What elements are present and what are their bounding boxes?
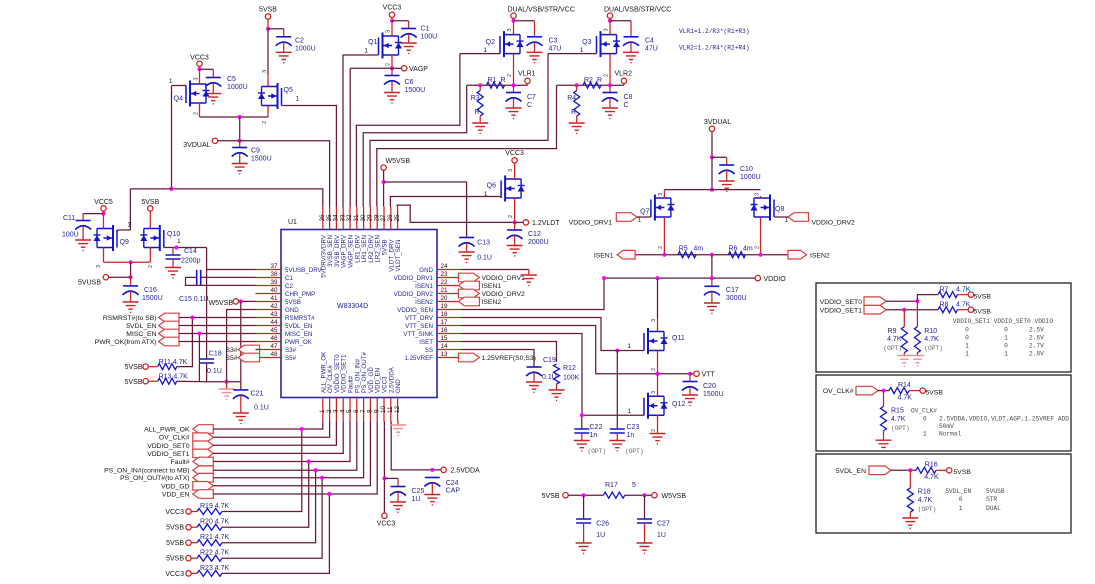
svg-text:Q10: Q10 — [167, 231, 180, 238]
svg-text:Q12: Q12 — [672, 401, 685, 408]
svg-text:R: R — [501, 77, 506, 84]
svg-text:3: 3 — [507, 28, 513, 31]
svg-text:1500U: 1500U — [142, 295, 163, 302]
svg-text:C15 0.1U: C15 0.1U — [179, 296, 209, 303]
svg-text:VLR2: VLR2 — [615, 71, 633, 78]
svg-text:1: 1 — [364, 48, 368, 55]
svg-text:1: 1 — [627, 408, 631, 415]
svg-text:4.7K: 4.7K — [898, 395, 913, 402]
svg-text:1: 1 — [169, 78, 173, 85]
svg-text:19: 19 — [441, 303, 449, 310]
svg-text:R18: R18 — [918, 489, 931, 496]
svg-text:2: 2 — [262, 121, 268, 124]
svg-text:C1: C1 — [421, 26, 430, 33]
svg-text:3: 3 — [651, 319, 657, 322]
svg-text:1000U: 1000U — [740, 174, 761, 181]
svg-text:4m: 4m — [693, 245, 703, 252]
svg-text:C: C — [527, 102, 532, 109]
svg-text:W5VSB: W5VSB — [386, 158, 411, 165]
svg-text:0.1U: 0.1U — [477, 255, 492, 262]
svg-text:0: 0 — [965, 335, 969, 342]
svg-text:VDDIO_DRV1: VDDIO_DRV1 — [394, 275, 434, 282]
svg-text:43: 43 — [270, 311, 278, 318]
svg-text:5VSB: 5VSB — [125, 379, 143, 386]
svg-text:2: 2 — [651, 368, 657, 371]
svg-text:1: 1 — [580, 47, 584, 54]
svg-text:4.7K: 4.7K — [956, 302, 971, 309]
svg-text:21: 21 — [441, 287, 449, 294]
svg-text:OV_CLK#: OV_CLK# — [823, 388, 854, 395]
svg-text:MISC_EN: MISC_EN — [285, 331, 313, 338]
svg-text:R: R — [597, 77, 602, 84]
svg-text:4.7K: 4.7K — [924, 474, 939, 481]
svg-text:C17: C17 — [726, 287, 739, 294]
svg-text:ISET: ISET — [419, 339, 433, 346]
svg-text:2: 2 — [507, 74, 513, 77]
svg-text:C4: C4 — [645, 38, 654, 45]
svg-text:C21: C21 — [251, 391, 264, 398]
svg-text:C2: C2 — [295, 38, 304, 45]
svg-text:3: 3 — [651, 391, 657, 394]
svg-text:0.1U: 0.1U — [207, 368, 222, 375]
svg-text:Q1: Q1 — [368, 39, 377, 46]
svg-text:PWR_OK(from ATX): PWR_OK(from ATX) — [95, 339, 157, 346]
svg-text:R7: R7 — [940, 287, 949, 294]
svg-text:R20 4.7K: R20 4.7K — [200, 519, 230, 526]
svg-text:20: 20 — [441, 295, 449, 302]
svg-text:5VUSB: 5VUSB — [986, 488, 1005, 495]
svg-text:1: 1 — [959, 505, 963, 512]
svg-text:C9: C9 — [251, 148, 260, 155]
svg-text:23: 23 — [441, 271, 449, 278]
svg-text:C: C — [624, 102, 629, 109]
svg-text:46: 46 — [270, 335, 278, 342]
svg-text:W5VSB: W5VSB — [208, 300, 233, 307]
svg-text:VDDIO_SET1: VDDIO_SET1 — [820, 308, 863, 315]
svg-text:2200p: 2200p — [181, 258, 201, 265]
svg-text:Fault#: Fault# — [171, 459, 190, 466]
svg-text:5: 5 — [632, 482, 636, 489]
svg-text:VTT: VTT — [702, 372, 716, 379]
svg-text:Q8: Q8 — [775, 206, 784, 213]
svg-text:R11 4.7K: R11 4.7K — [159, 359, 188, 366]
svg-text:5VSB: 5VSB — [166, 525, 184, 532]
svg-text:Q5: Q5 — [284, 87, 293, 94]
svg-text:CHR_PMP: CHR_PMP — [285, 291, 315, 298]
svg-text:MISC_EN: MISC_EN — [126, 331, 156, 338]
svg-text:1U: 1U — [596, 532, 605, 539]
svg-text:3: 3 — [604, 28, 610, 31]
svg-text:5VDL_EN: 5VDL_EN — [285, 323, 313, 330]
svg-text:4.7K: 4.7K — [924, 336, 939, 343]
svg-text:3000U: 3000U — [726, 295, 747, 302]
svg-text:VLR2=1.2/R4*(R2+R4): VLR2=1.2/R4*(R2+R4) — [679, 45, 750, 52]
svg-text:W83304D: W83304D — [337, 303, 368, 310]
svg-text:1: 1 — [177, 238, 181, 245]
svg-text:22: 22 — [441, 279, 449, 286]
svg-text:R8: R8 — [940, 302, 949, 309]
svg-text:3: 3 — [508, 169, 514, 172]
svg-text:0: 0 — [1004, 343, 1008, 350]
svg-text:VAGP: VAGP — [409, 66, 428, 73]
svg-text:VDDIO_SET1 VDDIO_SET0 VDDIO: VDDIO_SET1 VDDIO_SET0 VDDIO — [953, 318, 1054, 325]
svg-text:VCC5: VCC5 — [94, 199, 113, 206]
svg-text:1n: 1n — [590, 432, 598, 439]
svg-text:2.7V: 2.7V — [1029, 343, 1044, 350]
svg-text:4.7K: 4.7K — [891, 416, 906, 423]
svg-text:VDDIO_SET0: VDDIO_SET0 — [147, 443, 190, 450]
svg-text:S5#: S5# — [285, 355, 297, 362]
svg-text:ISEN1: ISEN1 — [594, 253, 614, 260]
svg-text:40: 40 — [270, 287, 278, 294]
svg-text:1.25VREF: 1.25VREF — [404, 355, 433, 362]
svg-text:1.2VLDT: 1.2VLDT — [532, 220, 560, 227]
svg-text:3VDUAL: 3VDUAL — [704, 119, 731, 126]
svg-text:VDDIO_DRV2: VDDIO_DRV2 — [482, 291, 526, 298]
svg-text:3: 3 — [194, 77, 200, 80]
svg-text:R3: R3 — [471, 95, 480, 102]
svg-text:2: 2 — [651, 429, 657, 432]
svg-text:VCC3: VCC3 — [165, 571, 184, 578]
svg-text:0: 0 — [1004, 327, 1008, 334]
svg-text:1U: 1U — [657, 532, 666, 539]
svg-text:C22: C22 — [590, 424, 603, 431]
svg-text:5VSB: 5VSB — [974, 294, 992, 301]
svg-text:4.7K: 4.7K — [956, 287, 971, 294]
svg-text:RSMRST#(to SB): RSMRST#(to SB) — [103, 315, 157, 322]
svg-text:(OPT): (OPT) — [625, 448, 644, 455]
svg-text:44: 44 — [270, 319, 278, 326]
svg-text:OV_CLK#: OV_CLK# — [159, 435, 190, 442]
svg-text:5VUSB: 5VUSB — [78, 280, 101, 287]
svg-text:39: 39 — [270, 279, 278, 286]
svg-text:41: 41 — [270, 295, 278, 302]
svg-text:16: 16 — [441, 327, 449, 334]
svg-text:47: 47 — [270, 343, 278, 350]
svg-text:Q4: Q4 — [174, 96, 183, 103]
svg-text:24: 24 — [441, 263, 449, 270]
svg-text:R22 4.7K: R22 4.7K — [200, 550, 230, 557]
svg-text:2.5VDDA: 2.5VDDA — [451, 467, 481, 474]
svg-text:5VSB: 5VSB — [141, 199, 159, 206]
svg-text:5VSB: 5VSB — [542, 493, 560, 500]
svg-text:ISEN1: ISEN1 — [415, 283, 433, 290]
svg-text:100U: 100U — [421, 34, 438, 41]
svg-text:42: 42 — [270, 303, 278, 310]
svg-text:0.1U: 0.1U — [542, 374, 557, 381]
svg-text:R2: R2 — [584, 77, 593, 84]
svg-text:R17: R17 — [605, 482, 618, 489]
svg-text:12: 12 — [394, 405, 401, 413]
svg-text:VTT_SINK: VTT_SINK — [403, 331, 433, 338]
svg-text:SS: SS — [425, 347, 433, 354]
svg-text:R: R — [475, 109, 480, 116]
svg-text:5VSB: 5VSB — [285, 299, 301, 306]
svg-text:2: 2 — [754, 246, 760, 249]
svg-text:VCC3: VCC3 — [505, 150, 524, 157]
svg-text:U1: U1 — [288, 219, 297, 226]
svg-text:1.25VREF(S0,S3): 1.25VREF(S0,S3) — [482, 355, 536, 362]
svg-text:37: 37 — [270, 263, 278, 270]
svg-text:S3#: S3# — [225, 347, 237, 354]
svg-text:1: 1 — [923, 430, 927, 437]
svg-text:1: 1 — [627, 343, 631, 350]
svg-text:PWR_OK: PWR_OK — [285, 339, 313, 346]
svg-text:5VSB: 5VSB — [974, 309, 992, 316]
svg-text:C8: C8 — [624, 94, 633, 101]
svg-text:50mV: 50mV — [939, 423, 954, 430]
svg-text:(OPT): (OPT) — [588, 448, 607, 455]
svg-text:48: 48 — [270, 351, 278, 358]
svg-text:Q9: Q9 — [120, 239, 129, 246]
svg-text:C7: C7 — [527, 94, 536, 101]
svg-text:VLR1: VLR1 — [518, 71, 536, 78]
svg-text:38: 38 — [270, 271, 278, 278]
svg-text:C23: C23 — [627, 424, 640, 431]
svg-text:1: 1 — [296, 96, 300, 103]
svg-text:VDD_EN: VDD_EN — [162, 492, 190, 499]
svg-text:15: 15 — [441, 335, 449, 342]
svg-text:C19: C19 — [543, 357, 556, 364]
svg-text:100U: 100U — [62, 232, 79, 239]
svg-text:DUAL/VSB/STR/VCC: DUAL/VSB/STR/VCC — [508, 7, 575, 14]
svg-text:PS_ON_IN#(connect to MB): PS_ON_IN#(connect to MB) — [104, 468, 189, 475]
svg-text:S3#: S3# — [285, 347, 297, 354]
svg-text:Q2: Q2 — [486, 39, 495, 46]
svg-text:(OPT): (OPT) — [924, 345, 943, 352]
svg-text:1n: 1n — [627, 432, 635, 439]
svg-text:13: 13 — [441, 351, 449, 358]
svg-text:OV_CLK#: OV_CLK# — [911, 407, 937, 414]
svg-text:R23 4.7K: R23 4.7K — [200, 565, 230, 572]
svg-text:R12: R12 — [563, 365, 576, 372]
svg-text:R10: R10 — [924, 328, 937, 335]
svg-text:W5VSB: W5VSB — [662, 493, 687, 500]
svg-text:5VSB: 5VSB — [926, 390, 944, 397]
svg-text:1500U: 1500U — [703, 391, 724, 398]
svg-text:C16: C16 — [144, 287, 157, 294]
svg-text:R1: R1 — [488, 77, 497, 84]
svg-text:VDD_GD: VDD_GD — [161, 483, 189, 490]
svg-text:DUAL/VSB/STR/VCC: DUAL/VSB/STR/VCC — [604, 7, 671, 14]
svg-text:Q11: Q11 — [672, 335, 685, 342]
svg-text:5VUSB_DRV: 5VUSB_DRV — [285, 267, 323, 274]
svg-text:47U: 47U — [645, 46, 658, 53]
svg-text:VDDIO_SEN: VDDIO_SEN — [397, 307, 433, 314]
svg-text:5VDL_EN: 5VDL_EN — [836, 468, 866, 475]
svg-text:R9: R9 — [888, 328, 897, 335]
svg-text:VCC3: VCC3 — [165, 509, 184, 516]
svg-text:(OPT): (OPT) — [918, 506, 937, 513]
svg-text:4.7K: 4.7K — [918, 497, 933, 504]
svg-text:R21 4.7K: R21 4.7K — [200, 534, 230, 541]
svg-text:3: 3 — [754, 193, 760, 196]
svg-text:VTT_SEN: VTT_SEN — [405, 323, 433, 330]
svg-text:1000U: 1000U — [227, 84, 248, 91]
svg-text:5VSB: 5VSB — [166, 556, 184, 563]
svg-text:Q7: Q7 — [640, 209, 649, 216]
svg-text:3: 3 — [96, 265, 102, 268]
svg-text:C12: C12 — [528, 231, 541, 238]
svg-text:5VSB: 5VSB — [125, 364, 143, 371]
svg-text:CAP: CAP — [446, 488, 461, 495]
svg-text:4m: 4m — [743, 245, 753, 252]
svg-text:R: R — [571, 109, 576, 116]
svg-text:3: 3 — [658, 193, 664, 196]
svg-text:18: 18 — [441, 311, 449, 318]
svg-text:4.7K: 4.7K — [887, 336, 902, 343]
svg-text:C20: C20 — [703, 383, 716, 390]
svg-text:47U: 47U — [549, 46, 562, 53]
svg-text:0: 0 — [923, 416, 927, 423]
svg-text:VDDIO_DRV2: VDDIO_DRV2 — [812, 220, 856, 227]
svg-text:5VDL_EN: 5VDL_EN — [126, 323, 156, 330]
svg-text:ISEN1: ISEN1 — [482, 283, 502, 290]
svg-text:0.1U: 0.1U — [254, 405, 269, 412]
svg-text:VLDT_SEN: VLDT_SEN — [395, 240, 402, 272]
svg-text:Normal: Normal — [939, 430, 962, 437]
svg-text:VDDIO_DRV1: VDDIO_DRV1 — [482, 275, 526, 282]
svg-text:0: 0 — [965, 327, 969, 334]
svg-text:(OPT): (OPT) — [883, 345, 902, 352]
svg-text:2.5VDDA,VDDIO,VLDT,AGP,1.25VRE: 2.5VDDA,VDDIO,VLDT,AGP,1.25VREF ADD — [939, 416, 1069, 423]
svg-text:C14: C14 — [184, 248, 197, 255]
svg-text:1500U: 1500U — [405, 87, 426, 94]
svg-text:ISEN2: ISEN2 — [810, 253, 830, 260]
svg-text:VLR1=1.2/R3*(R1+R3): VLR1=1.2/R3*(R1+R3) — [679, 28, 750, 35]
svg-text:2: 2 — [658, 246, 664, 249]
svg-text:Q6: Q6 — [487, 183, 496, 190]
svg-text:1: 1 — [965, 343, 969, 350]
svg-text:2.6V: 2.6V — [1029, 335, 1044, 342]
svg-text:0: 0 — [959, 496, 963, 503]
svg-text:PS_ON_OUT#(to ATX): PS_ON_OUT#(to ATX) — [120, 475, 189, 482]
svg-text:R13 4.7K: R13 4.7K — [159, 374, 189, 381]
svg-text:2: 2 — [148, 265, 154, 268]
svg-text:C13: C13 — [477, 240, 490, 247]
svg-text:C11: C11 — [63, 215, 75, 222]
svg-text:1: 1 — [1004, 335, 1008, 342]
svg-text:R16: R16 — [925, 462, 938, 469]
svg-text:25: 25 — [394, 214, 401, 222]
svg-text:C1: C1 — [285, 275, 293, 282]
svg-text:3: 3 — [386, 30, 392, 33]
svg-text:C25: C25 — [412, 488, 425, 495]
svg-text:VCC3: VCC3 — [190, 55, 209, 62]
svg-text:ISEN2: ISEN2 — [415, 299, 433, 306]
svg-text:VDDIO_SET1: VDDIO_SET1 — [147, 451, 190, 458]
svg-text:45: 45 — [270, 327, 278, 334]
svg-text:STR: STR — [986, 496, 997, 503]
svg-text:2000U: 2000U — [528, 239, 549, 246]
svg-text:C3: C3 — [549, 38, 558, 45]
svg-text:C24: C24 — [446, 480, 459, 487]
svg-text:Q3: Q3 — [582, 39, 591, 46]
svg-text:R15: R15 — [891, 408, 904, 415]
svg-text:VDDIO: VDDIO — [764, 276, 787, 283]
svg-text:1500U: 1500U — [251, 156, 272, 163]
svg-text:1: 1 — [483, 47, 487, 54]
svg-text:(OPT): (OPT) — [891, 425, 910, 432]
svg-text:VCC3: VCC3 — [383, 5, 402, 12]
svg-text:R5: R5 — [679, 245, 688, 252]
svg-text:VDDIO_SET0: VDDIO_SET0 — [820, 299, 863, 306]
svg-text:VDDIO_DRV2: VDDIO_DRV2 — [394, 291, 434, 298]
svg-text:C27: C27 — [657, 521, 670, 528]
svg-text:VTT_DRV: VTT_DRV — [405, 315, 434, 322]
svg-text:1: 1 — [1004, 351, 1008, 358]
svg-text:2: 2 — [194, 112, 200, 115]
svg-text:C2: C2 — [285, 283, 293, 290]
svg-text:ISEN2: ISEN2 — [482, 299, 502, 306]
svg-text:5VSB: 5VSB — [954, 469, 972, 476]
svg-text:VCC3: VCC3 — [377, 521, 396, 528]
svg-text:14: 14 — [441, 343, 449, 350]
svg-text:2.8V: 2.8V — [1029, 351, 1044, 358]
svg-text:1000U: 1000U — [295, 46, 316, 53]
svg-text:C5: C5 — [227, 76, 236, 83]
svg-text:5VSB: 5VSB — [259, 7, 277, 14]
svg-text:ALL_PWR_OK: ALL_PWR_OK — [144, 427, 190, 434]
svg-text:100K: 100K — [563, 375, 580, 382]
svg-text:5VDL_EN: 5VDL_EN — [945, 488, 971, 495]
svg-text:GND: GND — [395, 379, 402, 393]
svg-text:C10: C10 — [740, 166, 753, 173]
svg-text:17: 17 — [441, 319, 449, 326]
svg-text:R6: R6 — [729, 245, 738, 252]
svg-text:GND: GND — [419, 267, 433, 274]
svg-text:3VDUAL: 3VDUAL — [183, 142, 210, 149]
svg-text:GND: GND — [285, 307, 299, 314]
svg-text:2: 2 — [508, 215, 514, 218]
svg-text:5VSB: 5VSB — [166, 540, 184, 547]
svg-text:1U: 1U — [412, 496, 421, 503]
svg-text:S5#: S5# — [225, 355, 237, 362]
svg-text:C18: C18 — [209, 351, 222, 358]
svg-text:3: 3 — [262, 70, 268, 73]
svg-text:2: 2 — [386, 63, 392, 66]
svg-text:R4: R4 — [567, 95, 576, 102]
svg-text:DUAL: DUAL — [986, 505, 1001, 512]
svg-text:1: 1 — [127, 222, 131, 229]
svg-text:RSMRST#: RSMRST# — [285, 315, 315, 322]
svg-text:2: 2 — [604, 74, 610, 77]
svg-text:R19 4.7K: R19 4.7K — [200, 503, 230, 510]
svg-text:C26: C26 — [596, 521, 609, 528]
svg-text:C6: C6 — [405, 79, 414, 86]
svg-text:VDDIO_DRV1: VDDIO_DRV1 — [569, 220, 613, 227]
svg-text:R14: R14 — [898, 382, 911, 389]
svg-text:2.5V: 2.5V — [1029, 327, 1044, 334]
svg-text:1: 1 — [965, 351, 969, 358]
